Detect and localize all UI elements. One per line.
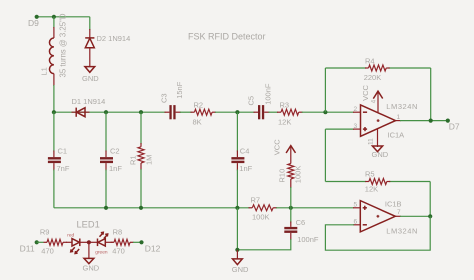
svg-text:FSK RFID Detector: FSK RFID Detector <box>188 32 266 42</box>
svg-text:GND: GND <box>83 264 100 273</box>
svg-text:100K: 100K <box>252 213 270 222</box>
VCC arrow pin4 IC1A <box>361 84 383 112</box>
svg-text:12K: 12K <box>365 185 378 194</box>
wire R3 to IC1A pin2 <box>302 111 354 113</box>
op-amp IC1A <box>353 102 418 140</box>
wire top corner down to D2 <box>89 17 91 30</box>
node R4 tap <box>323 110 327 114</box>
node D9 <box>35 15 39 19</box>
LED red (left half of LED1) <box>66 233 89 254</box>
node R1 tap <box>139 110 143 114</box>
capacitor C2 <box>100 112 122 208</box>
svg-text:8K: 8K <box>193 118 202 127</box>
node VREF (R10/C6/pin5) <box>289 206 293 210</box>
resistor R3 12K <box>277 101 303 127</box>
svg-text:7: 7 <box>397 209 401 216</box>
node C2 bottom <box>104 206 108 210</box>
svg-text:1M: 1M <box>144 155 153 165</box>
wire pin3 down to R5 row <box>324 129 326 181</box>
svg-text:100nF: 100nF <box>297 235 319 244</box>
svg-text:red: red <box>67 233 74 239</box>
capacitor C4 1nF <box>231 112 252 208</box>
wire R4 feedback left vertical <box>324 68 326 112</box>
wire LED mid to ground <box>88 242 90 258</box>
node GND branch <box>235 248 239 252</box>
svg-text:VCC: VCC <box>361 84 370 100</box>
svg-text:LED1: LED1 <box>77 219 100 229</box>
node C4 tap <box>235 110 239 114</box>
node L1/C1 tap <box>52 110 56 114</box>
resistor R8 470 <box>111 227 134 255</box>
capacitor C3 15nF <box>159 81 184 119</box>
wire C3 to R2 <box>180 111 192 113</box>
svg-text:220K: 220K <box>364 73 382 82</box>
wire R5 row <box>325 181 366 183</box>
svg-text:11: 11 <box>367 138 374 145</box>
op-amp IC1B <box>353 199 418 235</box>
resistor R4 220K <box>364 56 390 82</box>
svg-text:IC1B: IC1B <box>385 199 402 208</box>
resistor R10 100K <box>278 164 303 208</box>
wire C5 to R3 <box>269 111 279 113</box>
svg-text:D11: D11 <box>20 244 35 254</box>
wire R2 to C5 <box>215 111 255 113</box>
svg-text:5: 5 <box>354 202 358 209</box>
svg-text:R4: R4 <box>365 56 375 65</box>
wire R7 to IC1B pin5 <box>276 207 354 209</box>
svg-text:R9: R9 <box>40 227 50 236</box>
svg-text:470: 470 <box>112 247 125 256</box>
svg-text:6: 6 <box>354 219 358 226</box>
svg-text:1nF: 1nF <box>239 164 252 173</box>
svg-text:7nF: 7nF <box>57 164 70 173</box>
wire GND branch vertical <box>236 208 238 250</box>
svg-text:GND: GND <box>82 74 99 83</box>
resistor R1 1M <box>129 112 154 208</box>
svg-text:GND: GND <box>372 150 389 159</box>
svg-text:green: green <box>95 249 108 255</box>
wire bottom bus left (GND net) <box>54 207 250 209</box>
VCC arrow above R10 <box>272 139 295 164</box>
svg-text:35 turns @ 3.25"D: 35 turns @ 3.25"D <box>58 13 67 77</box>
svg-text:1nF: 1nF <box>109 164 122 173</box>
svg-text:C5: C5 <box>246 96 255 106</box>
resistor R2 8K <box>191 100 217 126</box>
wire IC1B feedback loop to pin6 <box>325 216 430 250</box>
ground under C4/C6 <box>232 250 249 274</box>
svg-text:LM324N: LM324N <box>386 102 418 111</box>
svg-text:100K: 100K <box>294 166 303 184</box>
capacitor C6 100nF <box>284 208 319 244</box>
resistor R9 470 <box>40 227 67 255</box>
diode D1 1N914 <box>72 97 106 117</box>
svg-text:D9: D9 <box>28 18 39 28</box>
resistor R5 12K <box>365 170 391 194</box>
svg-text:1: 1 <box>397 114 401 121</box>
svg-text:R7: R7 <box>251 195 261 204</box>
svg-text:GND: GND <box>232 265 249 274</box>
svg-text:470: 470 <box>41 247 54 256</box>
resistor R7 100K <box>249 195 278 221</box>
inductor L1 <box>40 13 68 86</box>
wire D11 to R9 <box>37 241 44 243</box>
svg-text:R2: R2 <box>194 100 204 109</box>
wire IC1A pin3 horizontal <box>325 128 354 130</box>
svg-text:R5: R5 <box>365 170 375 179</box>
LED green (right half of LED1) <box>89 232 113 255</box>
wire D9 node to L1 <box>53 17 55 28</box>
capacitor C5 100nF <box>246 83 272 119</box>
svg-text:2: 2 <box>354 106 358 113</box>
svg-text:100nF: 100nF <box>264 83 273 105</box>
svg-text:15nF: 15nF <box>175 81 184 99</box>
svg-text:D12: D12 <box>145 244 161 254</box>
svg-text:LM324N: LM324N <box>386 227 418 236</box>
GND arrow pin11 IC1A <box>367 129 388 159</box>
node D12 <box>139 240 143 244</box>
ground under D2 <box>82 67 99 83</box>
svg-text:R1: R1 <box>129 155 138 165</box>
junction at L1 top <box>52 15 56 19</box>
svg-text:IC1A: IC1A <box>388 131 405 140</box>
wire mid bus left segment <box>54 111 166 113</box>
svg-text:R8: R8 <box>113 227 123 236</box>
wire IC1B output <box>400 215 430 217</box>
svg-text:R3: R3 <box>280 101 290 110</box>
wire R4 feedback right vertical <box>430 68 432 121</box>
capacitor C1 <box>48 112 70 208</box>
wire top net D9 <box>37 16 90 18</box>
svg-text:D1 1N914: D1 1N914 <box>72 97 106 106</box>
svg-text:C3: C3 <box>159 93 168 103</box>
node LED midpoint (GND) <box>87 240 91 244</box>
wire L1 bottom to mid bus <box>53 85 55 112</box>
svg-text:C6: C6 <box>296 218 306 227</box>
node IC1A out / R4 <box>429 119 433 123</box>
node D11 <box>35 240 39 244</box>
wire R5 right vertical to IC1B out <box>429 182 431 217</box>
svg-text:3: 3 <box>354 123 358 130</box>
wire C6 bottom to GND corner <box>237 239 290 250</box>
node D7 <box>446 119 450 123</box>
svg-text:C2: C2 <box>110 147 120 156</box>
svg-text:C4: C4 <box>240 147 250 156</box>
wire R4 feedback top <box>325 67 366 69</box>
ground under LED1 <box>83 258 100 272</box>
wire IC1A output <box>400 120 448 122</box>
node R1 bottom <box>139 206 143 210</box>
diode D2 1N914 <box>85 29 130 67</box>
svg-text:D2 1N914: D2 1N914 <box>97 34 131 43</box>
svg-text:12K: 12K <box>278 118 291 127</box>
wire R8 to D12 <box>133 241 142 243</box>
svg-text:C1: C1 <box>58 147 68 156</box>
node C2 tap <box>104 110 108 114</box>
node C4/GND junction <box>235 206 239 210</box>
svg-text:D7: D7 <box>449 122 460 132</box>
svg-text:VCC: VCC <box>272 139 281 155</box>
node IC1B out <box>428 214 432 218</box>
svg-text:L1: L1 <box>40 67 49 75</box>
svg-text:R10: R10 <box>278 169 287 183</box>
